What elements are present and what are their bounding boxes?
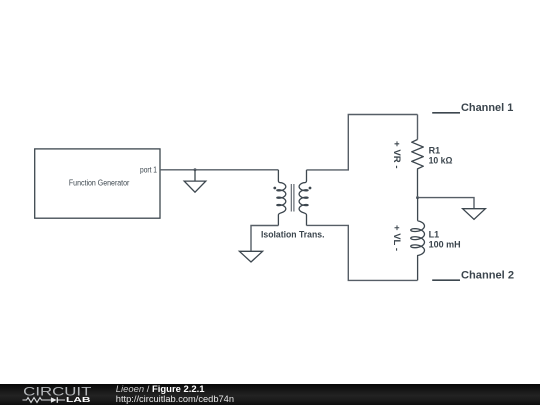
transformer T1 primary polarity dot — [273, 187, 276, 190]
transformer T1 secondary winding — [299, 170, 308, 226]
Channel 2 tick line — [432, 279, 460, 281]
logo mini diode — [51, 397, 57, 403]
svg-text:Channel 2: Channel 2 — [461, 269, 514, 281]
svg-text:R1: R1 — [429, 145, 441, 155]
svg-text:Lieoen / Figure 2.2.1: Lieoen / Figure 2.2.1 — [116, 384, 205, 394]
wire junction to ground GND3 — [418, 198, 475, 209]
svg-text:LAB: LAB — [66, 395, 91, 404]
wire top rail to R1 — [417, 115, 419, 140]
svg-text:Isolation Trans.: Isolation Trans. — [261, 229, 325, 239]
function generator box FG1 — [35, 149, 160, 218]
node junction on port wire — [194, 168, 197, 171]
ground GND3 — [463, 209, 486, 220]
svg-text:Channel 1: Channel 1 — [461, 102, 513, 114]
footer bar — [0, 384, 540, 405]
wire secondary top to channel-1 rail — [307, 115, 418, 170]
svg-text:+ VR -: + VR - — [392, 141, 402, 169]
node junction R1/L1 — [416, 196, 419, 199]
wire port1 to transformer — [160, 169, 278, 171]
ground GND1 — [184, 170, 206, 192]
wire primary bottom to ground — [251, 226, 278, 252]
transformer T1 core — [291, 184, 294, 212]
transformer T1 secondary polarity dot — [309, 187, 312, 190]
svg-text:L1: L1 — [429, 229, 440, 239]
ground GND2 — [239, 251, 262, 262]
resistor R1 — [412, 140, 424, 198]
svg-text:10 kΩ: 10 kΩ — [429, 155, 453, 165]
Channel 1 tick line — [432, 112, 460, 114]
svg-text:port 1: port 1 — [140, 164, 157, 174]
inductor L1 — [411, 198, 425, 281]
logo mini resistor — [23, 398, 66, 403]
svg-text:+ VL -: + VL - — [392, 225, 402, 251]
svg-text:100 mH: 100 mH — [429, 240, 461, 250]
svg-text:Function Generator: Function Generator — [69, 178, 130, 188]
transformer T1 primary winding — [277, 170, 286, 226]
svg-text:http://circuitlab.com/cedb74n: http://circuitlab.com/cedb74n — [116, 394, 234, 404]
wire secondary bottom to channel-2 rail — [307, 225, 418, 280]
